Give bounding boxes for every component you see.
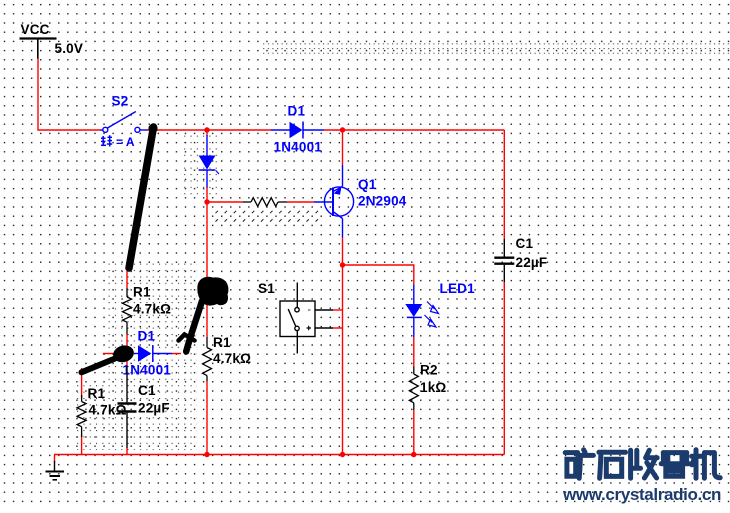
- wire x207 down to R1 right: [206, 202, 208, 337]
- svg-text:22µF: 22µF: [516, 255, 548, 270]
- svg-text:4.7kΩ: 4.7kΩ: [133, 302, 171, 317]
- ground: [46, 461, 65, 480]
- junction ground bus left: [204, 452, 209, 457]
- wire Q1 collector down: [342, 238, 344, 266]
- wire S1 pin stubs red: [333, 309, 343, 311]
- junction ground bus right: [411, 452, 416, 457]
- wire D1 lower left segment: [103, 353, 114, 355]
- wire base from junction to resistor: [207, 201, 243, 203]
- svg-text:1N4001: 1N4001: [274, 140, 323, 155]
- svg-text:1N4001: 1N4001: [123, 363, 172, 378]
- diode down at node x207: [199, 135, 219, 188]
- junction ground bus middle: [340, 452, 345, 457]
- wire right branch down to C1: [503, 130, 505, 239]
- svg-text:R1: R1: [133, 285, 151, 300]
- capacitor C1 lower: [118, 366, 137, 448]
- diode D1 top: [271, 122, 324, 139]
- svg-text:R2: R2: [420, 363, 438, 378]
- resistor R1 lower-left: [77, 395, 86, 437]
- wire R2 to bottom bus: [413, 410, 415, 455]
- svg-text:R1: R1: [213, 335, 231, 350]
- svg-text:22µF: 22µF: [138, 401, 170, 416]
- wire collector junction to LED branch: [343, 265, 414, 285]
- svg-text:4.7kΩ: 4.7kΩ: [89, 403, 127, 418]
- svg-text:C1: C1: [516, 236, 534, 251]
- switch S2: [101, 112, 148, 133]
- switch S1: [280, 283, 333, 354]
- junction at Q1 emitter node: [340, 127, 345, 132]
- annotation 2 blob and arrow: [197, 277, 228, 306]
- dense grid patch around down diode: [182, 133, 218, 196]
- svg-text:1kΩ: 1kΩ: [420, 380, 446, 395]
- wire top horizontal from D1 to right corner: [324, 129, 504, 131]
- resistor R1 right: [203, 337, 212, 381]
- junction at base node: [204, 199, 209, 204]
- wire C1 lower bottom lead red: [126, 448, 128, 455]
- wire x207 between diode and base junction: [206, 187, 208, 202]
- dense grid patch lower-left: [106, 263, 197, 380]
- resistor R2: [409, 367, 418, 411]
- junction at collector node: [340, 262, 345, 267]
- annotation stroke 1 (long marker line): [129, 127, 154, 268]
- watermark logo 矿石收音机: [565, 450, 720, 478]
- wire bottom ground bus: [54, 454, 504, 456]
- svg-text:2N2904: 2N2904: [358, 194, 407, 209]
- svg-text:C1: C1: [138, 383, 156, 398]
- wire R1 middle top lead red: [126, 271, 128, 288]
- annotation 3 blob and tail: [111, 343, 136, 364]
- wire LED to R2: [413, 337, 415, 367]
- stray mark: [79, 45, 82, 51]
- wire R1 middle bottom to D1 junction: [126, 334, 128, 366]
- transistor Q1: [314, 165, 354, 238]
- svg-text:LED1: LED1: [440, 281, 476, 296]
- base resistor (unlabeled): [243, 198, 287, 207]
- svg-text:Q1: Q1: [358, 177, 377, 192]
- resistor R1 middle: [123, 288, 132, 334]
- wire left vertical node x207 upper: [206, 130, 208, 136]
- LED1: [405, 285, 438, 338]
- wire D1 lower right segment: [172, 353, 181, 355]
- svg-text:VCC: VCC: [21, 22, 50, 37]
- wire ground stub red: [54, 455, 56, 463]
- wire S1 vertical net: [342, 265, 344, 455]
- svg-text:= A: = A: [116, 135, 135, 149]
- svg-text:D1: D1: [138, 329, 156, 344]
- junction at D1 anode node: [204, 127, 209, 132]
- svg-text:S2: S2: [112, 94, 129, 109]
- svg-text:4.7kΩ: 4.7kΩ: [213, 351, 251, 366]
- label 键 = A: [101, 135, 112, 146]
- wire x207 below R1 right to bottom bus: [206, 381, 208, 455]
- selection slashes row: [216, 211, 319, 222]
- wire R1 lower-left top lead: [81, 368, 83, 398]
- svg-text:R1: R1: [88, 386, 106, 401]
- svg-text:www.crystalradio.cn: www.crystalradio.cn: [562, 485, 721, 504]
- wire Q1 emitter top: [342, 130, 344, 165]
- wire right branch C1 to bottom: [503, 282, 505, 455]
- svg-text:D1: D1: [288, 104, 306, 119]
- power VCC: [20, 39, 57, 59]
- wire VCC stem red: [38, 58, 101, 130]
- svg-text:5.0V: 5.0V: [55, 41, 84, 56]
- dense grid band top-right: [262, 41, 730, 58]
- diode D1 lower: [134, 345, 172, 362]
- wire base resistor to Q1: [287, 201, 314, 203]
- svg-text:S1: S1: [258, 281, 275, 296]
- wire R1 lower-left bottom lead: [81, 435, 83, 455]
- wire top horizontal from S2 to D1: [147, 129, 271, 131]
- capacitor C1 right: [494, 239, 514, 282]
